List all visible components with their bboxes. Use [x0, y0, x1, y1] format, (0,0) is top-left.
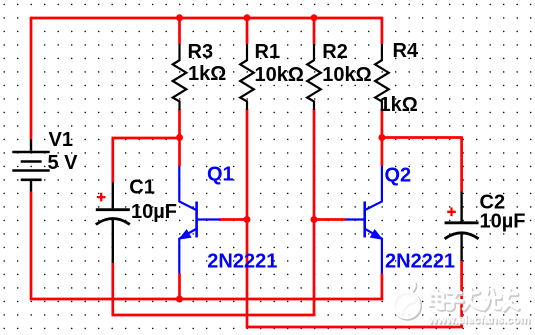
svg-text:10µF: 10µF	[480, 210, 526, 232]
wire C1 top to Q1 collector node	[112, 138, 180, 183]
resistor R3	[173, 44, 187, 110]
junction R2 top	[311, 14, 318, 21]
svg-text:www.elecfans.com: www.elecfans.com	[428, 314, 531, 326]
wire Q1 base to R1 node	[220, 218, 248, 221]
wire top bus	[31, 17, 382, 20]
junction node C R1/Q1-base/C2-bottom	[244, 216, 251, 223]
wire Q2 emitter to bottom bus	[381, 273, 384, 300]
svg-text:R4: R4	[393, 40, 419, 62]
wire R1 through Q1 base node down to C2 bottom	[246, 109, 462, 328]
svg-text:R1: R1	[255, 41, 281, 63]
capacitor C1	[96, 183, 130, 264]
svg-text:10kΩ: 10kΩ	[255, 64, 304, 86]
junction node D R2/Q2-base/C1-bottom	[311, 216, 318, 223]
wire R4 to Q2 collector node	[381, 109, 384, 166]
resistor R4	[375, 44, 389, 110]
wire R2 node to Q2 base	[314, 218, 346, 221]
wire top bus to R2	[313, 18, 316, 44]
svg-text:R2: R2	[322, 41, 348, 63]
svg-text:1kΩ: 1kΩ	[380, 94, 418, 116]
svg-text:1kΩ: 1kΩ	[188, 63, 226, 85]
svg-text:R3: R3	[188, 41, 214, 63]
wire C1 bottom to R2/Q2-base node	[112, 220, 315, 317]
svg-text:C1: C1	[129, 177, 155, 199]
wire R4 node to C2 top	[382, 136, 462, 191]
svg-text:10kΩ: 10kΩ	[322, 64, 371, 86]
svg-text:2N2221: 2N2221	[385, 251, 455, 273]
wire R3 to Q1 collector node	[178, 109, 181, 166]
junction Q1 emitter / bottom bus	[176, 296, 183, 303]
wire V1 minus to bottom bus	[30, 192, 382, 301]
svg-text:Q2: Q2	[385, 165, 412, 187]
polarity plus C1	[97, 193, 106, 202]
svg-text:Q1: Q1	[207, 164, 234, 186]
svg-text:V1: V1	[49, 129, 73, 151]
svg-text:2N2221: 2N2221	[207, 251, 277, 273]
capacitor C2	[445, 192, 479, 262]
svg-text:5 V: 5 V	[48, 152, 79, 174]
wire top bus to R1	[246, 18, 249, 44]
battery V1	[12, 140, 49, 192]
transistor Q2 (2N2221)	[346, 166, 382, 273]
junction R1 top	[244, 14, 251, 21]
arrow Q2 emitter	[371, 230, 382, 239]
wire top bus to R3	[178, 18, 181, 44]
wire R2 to Q2 base node	[313, 109, 316, 220]
polarity plus C2	[447, 208, 456, 217]
wire Q1 emitter to bottom bus	[178, 273, 181, 299]
wire top bus corner to R4	[381, 17, 384, 44]
watermark logo elecfans	[394, 282, 421, 320]
svg-text:10µF: 10µF	[131, 201, 177, 223]
wire left from top bus to V1	[30, 17, 33, 140]
arrow Q1 emitter	[180, 230, 191, 239]
transistor Q1 (2N2221, mirrored)	[179, 166, 220, 273]
watermark text dian zi fa shao you	[430, 289, 519, 312]
junction node A R3/C1/Q1-collector	[176, 134, 183, 141]
junction R3 top	[176, 14, 183, 21]
junction node B R4/C2/Q2-collector	[378, 134, 385, 141]
resistor R2	[307, 44, 321, 110]
resistor R1	[240, 44, 254, 110]
